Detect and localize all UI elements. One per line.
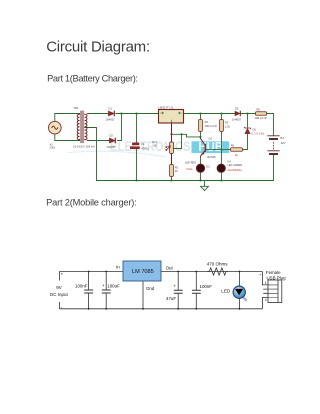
- svg-text:CHARGING: CHARGING: [228, 168, 242, 172]
- svg-text:LED: LED: [221, 289, 231, 294]
- svg-text:LED-GREEN: LED-GREEN: [228, 164, 243, 167]
- svg-text:R4: R4: [205, 120, 209, 124]
- svg-text:HUB: HUB: [199, 140, 224, 154]
- svg-text:100uF: 100uF: [107, 284, 120, 289]
- svg-text:D5: D5: [235, 107, 239, 111]
- svg-text:In: In: [116, 265, 120, 270]
- svg-text:1: 1: [265, 281, 267, 285]
- svg-text:+: +: [173, 283, 176, 288]
- svg-text:10R 1/2 W: 10R 1/2 W: [205, 124, 218, 128]
- svg-text:D1: D1: [109, 107, 113, 111]
- svg-text:R5: R5: [257, 107, 261, 111]
- svg-text:2.2k: 2.2k: [225, 125, 231, 129]
- svg-text:D2: D2: [110, 134, 114, 138]
- svg-text:FULL: FULL: [187, 167, 194, 171]
- svg-text:Circuit Diagram:: Circuit Diagram:: [46, 39, 150, 56]
- svg-text:BC548: BC548: [208, 155, 216, 159]
- svg-text:4700u: 4700u: [141, 146, 149, 150]
- svg-text:+: +: [61, 272, 64, 277]
- svg-text:9V: 9V: [56, 285, 62, 290]
- svg-text:Gnd: Gnd: [146, 286, 155, 291]
- svg-text:230v: 230v: [50, 145, 56, 149]
- svg-text:100nF: 100nF: [200, 284, 213, 289]
- svg-text:Female: Female: [266, 270, 281, 275]
- svg-text:470 Ohms: 470 Ohms: [207, 262, 229, 267]
- svg-text:1N4007: 1N4007: [107, 145, 117, 149]
- svg-text:D6: D6: [253, 127, 257, 131]
- svg-text:(7.2 V 1 W): (7.2 V 1 W): [251, 133, 264, 136]
- svg-text:1K: 1K: [175, 169, 178, 173]
- svg-text:Part 1(Battery Charger):: Part 1(Battery Charger):: [47, 74, 138, 84]
- svg-text:47uF: 47uF: [166, 296, 176, 301]
- svg-text:LM317T U1: LM317T U1: [159, 106, 174, 110]
- svg-text:TR1: TR1: [73, 106, 79, 110]
- svg-text:Out: Out: [166, 266, 174, 271]
- svg-text:100nF: 100nF: [75, 284, 88, 289]
- svg-text:15-0-15V / 500 mA: 15-0-15V / 500 mA: [73, 145, 95, 149]
- svg-text:4: 4: [265, 298, 267, 302]
- svg-text:USB Plug: USB Plug: [267, 276, 287, 281]
- svg-text:DC Input: DC Input: [50, 292, 69, 297]
- svg-text:Q1: Q1: [209, 137, 213, 141]
- svg-text:LM 7085: LM 7085: [132, 269, 154, 275]
- svg-text:B1: B1: [281, 136, 285, 140]
- svg-text:LED-RED: LED-RED: [185, 162, 196, 165]
- svg-text:10R 1/2 W: 10R 1/2 W: [255, 116, 268, 120]
- svg-text:RV1: RV1: [152, 140, 158, 144]
- svg-text:Part 2(Mobile charger):: Part 2(Mobile charger):: [46, 198, 136, 208]
- svg-text:R3: R3: [175, 166, 179, 170]
- svg-text:R2: R2: [225, 121, 229, 125]
- svg-text:1N4007: 1N4007: [232, 117, 242, 121]
- svg-text:C1: C1: [141, 142, 145, 146]
- svg-text:1N4007: 1N4007: [106, 118, 116, 122]
- svg-text:ELECTRONICS: ELECTRONICS: [110, 139, 191, 154]
- svg-text:1K: 1K: [154, 143, 157, 147]
- svg-text:+: +: [102, 283, 105, 288]
- svg-text:R6: R6: [231, 144, 235, 148]
- svg-text:12V: 12V: [281, 141, 286, 145]
